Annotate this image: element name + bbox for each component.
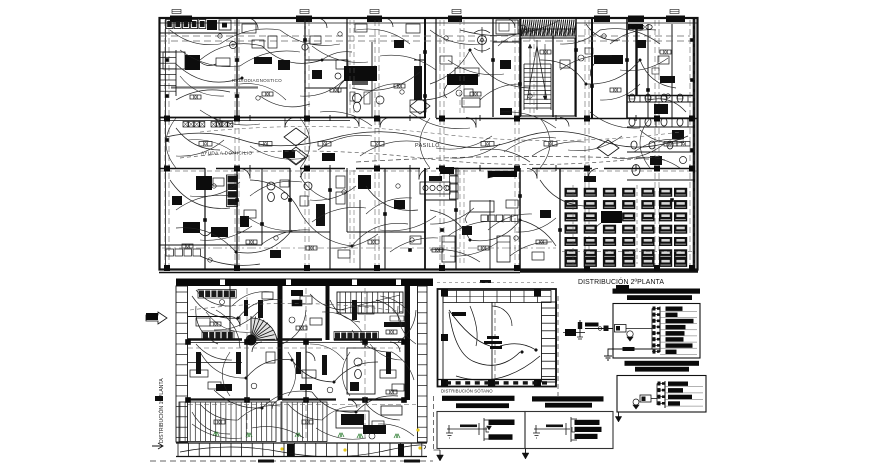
column nodes: [164, 116, 170, 122]
radiodiagnostico equipment desk: [336, 60, 348, 69]
toilet black seat: [654, 104, 668, 114]
wash basins right wing: [630, 25, 636, 30]
bars left of basement panel: [532, 396, 604, 401]
feeder label bar: [585, 323, 599, 327]
wardrobe row: [481, 215, 487, 221]
office chair figure: [478, 36, 487, 45]
first floor lower horizontal wall: [188, 398, 270, 400]
desk room2 black: [254, 57, 272, 64]
upper band horizontal partitions: [627, 95, 694, 97]
green plants: [213, 432, 219, 436]
room middle-desk: [455, 68, 479, 76]
bars below panel1: [625, 361, 700, 366]
balcony deck hatch mid: [281, 403, 283, 442]
toilet row 2 right wing: [627, 126, 694, 128]
kitchen shelf column: [450, 168, 459, 175]
right wing thick divider wall: [635, 24, 637, 95]
first floor switch dots: [237, 317, 240, 320]
extra furniture lower rooms 2: [172, 196, 182, 205]
wiring arcs lower band: [170, 180, 230, 208]
first floor gray dashed guides: [188, 347, 404, 349]
basement top window band: [443, 291, 551, 303]
panel neutral drop and ground: [608, 349, 660, 356]
salon aisle dashed lines: [562, 251, 692, 253]
first floor extra wiring arcs: [196, 290, 232, 306]
top plan left wall inner line: [165, 18, 167, 269]
basement corner columns: [441, 290, 448, 297]
svg-text:DISTRIBUCIÓN SÓTANO: DISTRIBUCIÓN SÓTANO: [441, 388, 493, 393]
basement bottom band: [438, 379, 557, 381]
door swing arcs corridor rooms: [210, 118, 220, 128]
basement door arc: [492, 306, 512, 326]
top wall inner line: [159, 22, 698, 24]
schematic title bars upper: [616, 285, 629, 289]
first floor extra clutter bottom rooms: [208, 382, 221, 389]
roof vents above top wall: [172, 10, 181, 14]
hatched planter strip: [521, 19, 576, 37]
beds lower-left rooms: [442, 236, 455, 262]
lower right wing bathroom walls: [627, 151, 694, 153]
gray guide dashed corridor: [356, 156, 668, 162]
shelf column: [228, 176, 237, 182]
svg-text:RADIODIAGNOSTICO: RADIODIAGNOSTICO: [232, 78, 282, 83]
first floor door swings: [230, 317, 240, 327]
feeder meter box: [565, 329, 576, 336]
door swing arcs upper rooms: [247, 18, 258, 29]
stair arrows: [529, 44, 531, 100]
radiator row mid-left: [203, 332, 208, 339]
first floor stairs top right: [337, 292, 403, 313]
first floor office bottom right: [336, 411, 369, 428]
first floor interior furniture: [196, 352, 201, 374]
junction boxes along walls: [235, 58, 239, 62]
first floor lights: [210, 322, 221, 326]
first floor inner right wall: [405, 286, 411, 400]
top plan bottom double edge: [159, 272, 520, 274]
basement outer walls: [438, 289, 557, 387]
radiator row mid-right: [335, 333, 340, 340]
left room desk with pc: [163, 52, 185, 69]
first floor right outer strip: [418, 286, 428, 442]
feeder cgp pole: [579, 320, 581, 337]
salon chairs grid: [565, 188, 578, 197]
first floor bottom edge colonnade: [176, 442, 427, 444]
extra dashed vertical pairs: [349, 20, 351, 116]
stair left edge: [160, 51, 176, 53]
panel bus second floor: [659, 307, 661, 353]
first floor top thick wall band: [176, 279, 433, 287]
corridor diamonds lamps: [284, 128, 308, 146]
left small arrow bottom: [152, 443, 163, 449]
extra furniture upper rooms 2: [242, 24, 256, 33]
basement top tick marks: [480, 280, 491, 283]
black cabinet top-left: [207, 20, 217, 30]
svg-text:DISTRIBUCIÓN 1ª PLANTA: DISTRIBUCIÓN 1ª PLANTA: [158, 378, 165, 443]
arrow bottom left of box A: [433, 396, 435, 450]
first floor desks right room: [358, 306, 374, 314]
tiny tick symbols walls: [249, 115, 251, 121]
svg-text:AYUDA A DOMICILIO: AYUDA A DOMICILIO: [201, 151, 252, 157]
basement panel feed arrow: [618, 412, 620, 418]
dining tables: [470, 201, 494, 212]
small wc cluster: [267, 182, 275, 190]
extra wiring arcs dense: [170, 30, 220, 45]
schematic box A: [437, 412, 525, 449]
box B one-line diagram: [534, 428, 570, 430]
arrow below boxes junction: [525, 449, 527, 455]
store room boxes: [336, 176, 345, 188]
small sign black: [292, 300, 302, 306]
bars above box A: [442, 396, 515, 401]
basement center bars: [487, 336, 499, 339]
panel breaker rows second floor: [652, 308, 660, 310]
first floor interior thick verticals: [278, 286, 283, 400]
basement interior vertical wall: [491, 302, 493, 386]
lower band dash-dot guide: [162, 247, 556, 249]
vertical walls upper band: [236, 18, 238, 117]
schematic box B: [525, 412, 613, 449]
spiral stair fan: [251, 318, 277, 340]
basement left wall inner: [442, 289, 444, 386]
right wing small blob: [660, 76, 675, 83]
panel box basement: [617, 376, 706, 413]
main stair core: [521, 38, 575, 116]
corridor bottom wall segments: [159, 168, 205, 170]
radiator row top-left: [199, 291, 204, 298]
extra dashed vertical pairs lower: [349, 170, 351, 266]
corridor luminaires: [199, 142, 212, 147]
switch dots: [241, 77, 244, 80]
waiting chairs row: [166, 249, 174, 256]
first floor dashed grid verticals: [246, 288, 248, 440]
window sill hatch rows under corridor wall: [183, 122, 188, 128]
right wing desk: [594, 55, 623, 64]
corridor black splice: [283, 150, 295, 158]
shelving top-left: [166, 20, 173, 29]
black wedge table: [488, 171, 517, 178]
diamond lamp right pair: [597, 140, 619, 156]
small circles fixtures scatter: [218, 34, 222, 38]
panel bus basement: [664, 381, 666, 408]
first floor column nodes: [185, 339, 191, 345]
basement top-left lamp bar: [452, 312, 466, 316]
yellow dots: [280, 447, 283, 450]
window blocks top wall: [170, 16, 192, 23]
toilet row 1 right wing: [627, 101, 694, 103]
first floor fixtures upper rooms: [300, 296, 312, 304]
svg-text:PASILLO: PASILLO: [415, 143, 440, 149]
first floor mid horizontal wall: [188, 338, 242, 340]
lower band lights: [182, 244, 193, 248]
salon lectern: [601, 211, 622, 223]
basement right stair ladder: [542, 302, 557, 382]
lower band partitions: [237, 231, 330, 233]
gray bar left room: [171, 86, 258, 88]
bath row 2: [304, 182, 312, 190]
wiring arcs upper band: [176, 64, 242, 82]
balcony deck hatch left: [179, 403, 181, 442]
gray guide dashed lines upper band: [160, 35, 690, 37]
panel rcd second floor: [615, 325, 627, 333]
corridor wire arcs: [166, 133, 330, 146]
panel rcd basement: [640, 395, 651, 402]
extra arcs fill 2: [180, 50, 240, 67]
ceiling cross symbol: [414, 54, 426, 66]
ayuda a domicilio office desks: [196, 176, 212, 190]
colonnade wire arc: [180, 445, 426, 457]
desk upper-middle: [462, 98, 480, 107]
first floor extra interior walls: [188, 362, 242, 364]
long dashed gray arcs corridor: [180, 151, 660, 165]
feeder line to panel: [585, 328, 613, 330]
box A one-line diagram: [447, 428, 487, 430]
first floor upper-room fixtures: [196, 318, 210, 326]
top plan right wall thick: [693, 18, 696, 270]
small table room2: [252, 40, 264, 48]
basement wiring arcs: [449, 310, 490, 346]
kitchen counter: [420, 182, 450, 194]
basement right dashed drop line: [557, 296, 559, 396]
cleaning room: [496, 20, 518, 34]
upper band lights: [190, 95, 201, 99]
corridor top wall: [159, 117, 425, 119]
first floor left window strip: [176, 286, 188, 442]
first floor bottom dashed line: [150, 460, 433, 462]
basement switch dots: [535, 349, 538, 352]
entry arrow: [146, 312, 167, 324]
x-ray table: [414, 66, 422, 100]
wc room fixtures left of stairs: [353, 94, 362, 103]
first floor wc lower middle: [347, 348, 375, 394]
column grid dashed lines: [164, 20, 166, 268]
panel box second floor: [613, 304, 700, 359]
svg-text:DISTRIBUCIÓN 2ºPLANTA: DISTRIBUCIÓN 2ºPLANTA: [578, 277, 664, 286]
vertical walls lower band: [204, 168, 206, 269]
second floor plan outline: [160, 18, 698, 270]
first floor wiring arcs: [192, 296, 238, 318]
